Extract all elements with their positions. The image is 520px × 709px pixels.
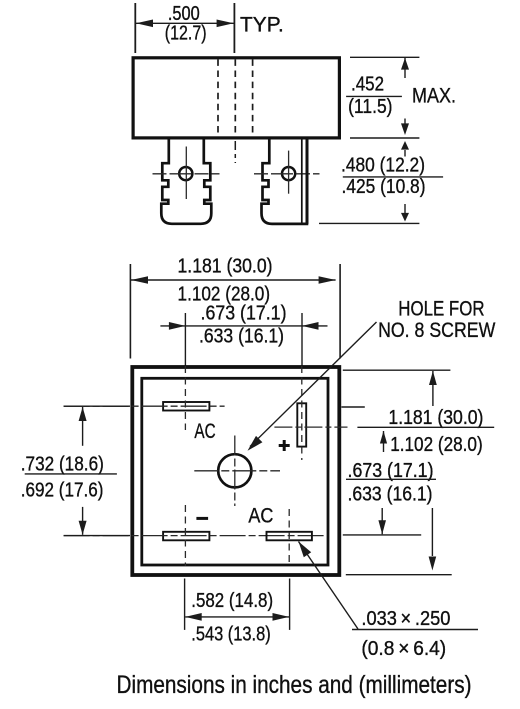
terminal slot + top-right (vertical) [297,403,306,446]
dim .732 arrow up [82,407,84,446]
leader line to hole [250,322,377,447]
hole vertical centerline [234,436,236,507]
svg-text:Dimensions in inches and (mill: Dimensions in inches and (millimeters) [117,671,472,699]
svg-text:AC: AC [248,505,273,528]
fraction bar right .673/.633 [346,478,436,480]
svg-text:.582 (14.8): .582 (14.8) [191,590,273,612]
package inner square [142,378,328,565]
slot + horizontal centerline [274,426,347,428]
edge-on tab outer edge [306,137,309,224]
svg-text:AC: AC [194,420,215,443]
extension line slot+ top level right [341,406,364,408]
dimension line 1.181 [131,279,336,281]
terminal pin 1 (left faston tab) outline [161,137,211,223]
extension line .582 right [289,579,291,630]
leader underline bar [352,629,478,631]
label minus [196,517,208,520]
hidden mounting hole dashed line right [252,59,254,135]
svg-text:.480 (12.2): .480 (12.2) [341,154,425,176]
svg-text:(11.5): (11.5) [348,96,392,118]
hole centerline dashed (middle) [234,59,236,135]
dim 1.102 arrow up [383,431,385,452]
arrowhead 1.181 right [319,276,336,284]
fraction bar .732/.692 [25,473,117,475]
dim .633 arrow down [381,508,383,534]
extension line bottom slot centerline right [343,534,421,536]
dim .452 arrow down [404,119,406,126]
arrowhead .582 left [185,613,202,621]
bottom slots horizontal centerline [64,535,327,537]
leader arrowhead at slot [299,542,312,558]
svg-text:NO. 8 SCREW: NO. 8 SCREW [378,318,496,342]
svg-text:1.102 (28.0): 1.102 (28.0) [390,434,483,456]
pin 1 horizontal centerline [153,173,220,175]
slot minus vertical centerline (dashed) [184,505,186,566]
dim .480 arrow up [404,150,406,157]
terminal slot minus bottom-left [163,532,209,541]
slot AC top-left centerline [64,405,225,407]
hidden mounting hole dashed line left [217,59,219,135]
dimension line .500 [136,22,234,24]
fraction bar right 1.181/1.102 [357,426,494,428]
package outer square (bottom view) [132,367,339,575]
leader line to slot (.033 x .250) [299,542,359,630]
pin 2 hole [282,167,295,180]
arrowhead .582 right [273,613,290,621]
extension line .732 top (left side) [64,405,130,407]
leader arrowhead at hole [248,436,263,451]
dimension line .673 [160,325,327,327]
arrowhead right .500 [217,20,234,28]
dim 1.181 right arrow up [432,371,434,406]
svg-text:.452: .452 [351,74,384,96]
svg-text:MAX.: MAX. [412,83,456,107]
extension line square bottom right [346,574,452,576]
fraction bar .452/(11.5) [346,95,402,97]
extension line 1.181 left [129,264,131,359]
svg-text:.673 (17.1): .673 (17.1) [201,303,287,325]
svg-text:(0.8 × 6.4): (0.8 × 6.4) [361,638,446,660]
fraction bar .480/.425 [343,176,443,178]
extension line pin bottom right [319,222,419,224]
dim 1.181 right arrow down [431,508,433,556]
svg-text:.500: .500 [168,3,200,25]
svg-text:(12.7): (12.7) [165,23,207,45]
pin 1 vertical centerline [185,147,187,200]
arrowhead .673 right (outside pointing left) [302,322,319,330]
edge-on tab inner line [301,137,303,222]
dim .480 arrow down [404,204,406,214]
pin 2 horizontal centerline [254,173,320,175]
dim .732 arrow down [82,507,84,535]
pin 2 vertical centerline [288,151,290,194]
svg-text:1.181 (30.0): 1.181 (30.0) [388,407,483,429]
hole centerline stub below body [234,141,236,163]
extension line right of .500 dim (hole centerline extended) [233,3,235,53]
svg-text:1.181 (30.0): 1.181 (30.0) [178,256,273,278]
svg-text:.732 (18.6): .732 (18.6) [21,454,104,476]
package body (side view) [133,58,339,138]
dim .452 arrow up [404,58,406,78]
svg-text:.633 (16.1): .633 (16.1) [348,483,433,505]
extension line .692 bottom (left side) [64,535,130,537]
terminal pin 2 (right faston tab, overlapped by edge-on tab) outline [262,137,309,224]
slot AC top-left vertical centerline (dashed) [184,366,186,430]
extension line .673 left (pad centerline up) [184,313,186,366]
svg-text:HOLE FOR: HOLE FOR [398,297,484,321]
svg-text:.425 (10.8): .425 (10.8) [342,176,426,198]
extension line left of .500 dim [134,3,136,53]
extension line .673 right (pad centerline up) [301,313,303,366]
extension line body top right [350,56,419,58]
svg-text:.543 (13.8): .543 (13.8) [191,624,270,646]
pin 1 hole [179,167,192,180]
arrowhead left .500 [136,20,153,28]
arrowhead 1.181 left [131,276,148,284]
arrowhead .673 left (outside pointing right) [169,322,186,330]
extension line .582 left [184,579,186,630]
svg-text:TYP.: TYP. [240,12,284,36]
svg-text:.633 (16.1): .633 (16.1) [199,326,284,348]
hole horizontal centerline [194,470,280,472]
extension line body bottom right [350,137,419,139]
slot + vertical centerline (dashed) [301,366,303,460]
svg-text:.692 (17.6): .692 (17.6) [21,479,104,501]
terminal slot AC top-left [163,402,209,411]
slot AC bottom-right vertical centerline (dashed) [288,509,290,564]
label + [279,440,290,451]
extension line 1.181 right [339,264,341,359]
extension line square top right [343,369,451,371]
terminal slot AC bottom-right [267,532,312,541]
dimension line .582 [185,616,289,618]
svg-text:.033 × .250: .033 × .250 [361,608,450,630]
mounting hole [218,454,251,487]
